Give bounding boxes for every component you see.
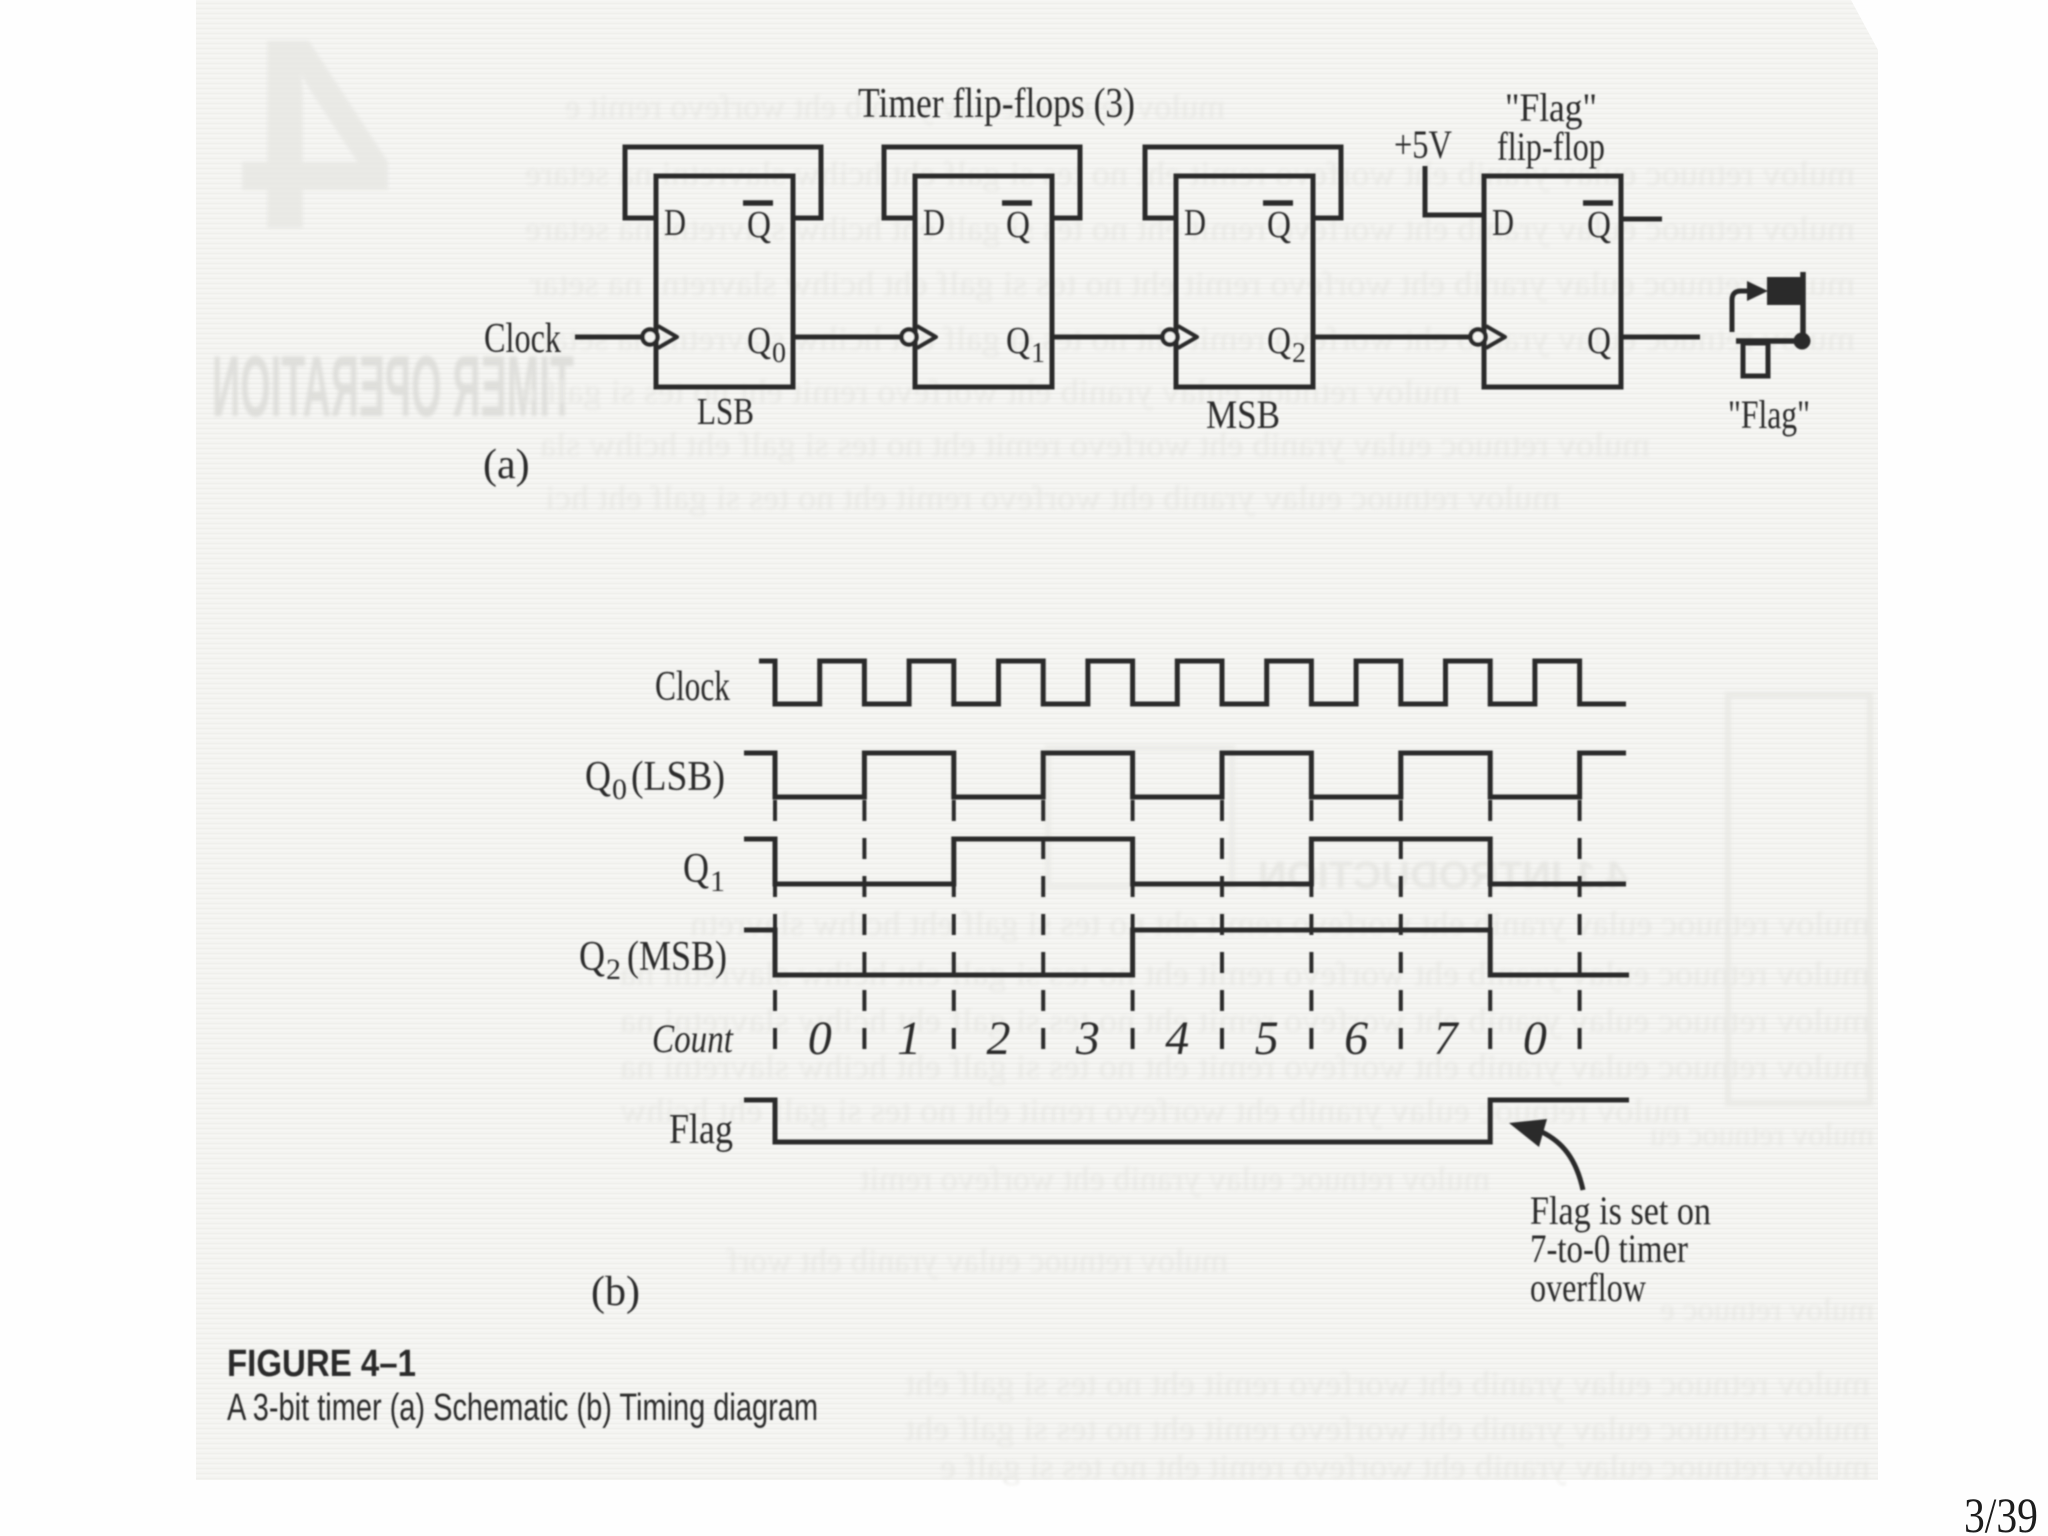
svg-text:"Flag": "Flag" [1728, 392, 1810, 437]
count values [808, 1012, 1547, 1065]
svg-text:1: 1 [1031, 338, 1045, 369]
flag symbol: curved set-arrow [1732, 291, 1752, 332]
svg-text:2: 2 [987, 1012, 1011, 1065]
svg-text:mulov retnuoc eulav yranib eht: mulov retnuoc eulav yranib eht worf [726, 1243, 1228, 1280]
svg-text:Q: Q [683, 846, 709, 892]
svg-text:MSB: MSB [1206, 392, 1280, 437]
Q1 row label [683, 846, 725, 898]
flag symbol: horizontal wire [1736, 338, 1802, 344]
svg-text:2: 2 [606, 953, 621, 986]
svg-text:mulov retnuoc eulav yranib eht: mulov retnuoc eulav yranib eht worfevo r… [904, 1411, 1870, 1448]
svg-text:Q: Q [585, 754, 611, 800]
svg-text:Q: Q [1006, 204, 1030, 246]
svg-text:4: 4 [239, 0, 392, 286]
svg-text:1: 1 [897, 1012, 921, 1065]
figure caption [227, 1343, 818, 1429]
svg-text:flip-flop: flip-flop [1497, 124, 1605, 169]
Q2 waveform [744, 930, 1629, 975]
svg-text:mulov retnuoc eulav yranib eht: mulov retnuoc eulav yranib eht worfevo r… [690, 906, 1870, 943]
flag symbol: filled flag [1768, 278, 1801, 304]
Q0 waveform [744, 753, 1626, 797]
D flip-flop flag flip-flop [1471, 176, 1622, 387]
D flip-flop FF2 (MSB) [1145, 147, 1341, 387]
svg-text:mulov retnuoc eulav yranib eht: mulov retnuoc eulav yranib eht worfevo r… [529, 266, 1855, 303]
D flip-flop FF0 (LSB) [625, 147, 821, 387]
svg-text:7: 7 [1434, 1012, 1460, 1065]
dashed count-boundary lines [775, 800, 1580, 1058]
svg-text:6: 6 [1344, 1012, 1368, 1065]
svg-text:2: 2 [1292, 338, 1306, 369]
svg-text:mulov retnuoc eu: mulov retnuoc eu [1650, 1116, 1874, 1152]
Q1 waveform [744, 839, 1626, 884]
svg-text:4: 4 [1165, 1012, 1189, 1065]
svg-text:Q: Q [1006, 320, 1030, 362]
svg-text:mulov retnuoc e: mulov retnuoc e [1660, 1291, 1874, 1327]
svg-text:mulov retnuoc eulav yranib eht: mulov retnuoc eulav yranib eht worfevo r… [859, 1161, 1490, 1198]
wire: Q0 to FF1 clock [793, 335, 901, 340]
Clock waveform [759, 661, 1626, 704]
svg-text:Q: Q [747, 320, 771, 362]
svg-text:1: 1 [710, 865, 725, 898]
svg-text:Timer flip-flops (3): Timer flip-flops (3) [858, 81, 1135, 127]
svg-text:mulov retnuoc eulav yranib eht: mulov retnuoc eulav yranib eht worfevo r… [520, 374, 1460, 411]
svg-text:D: D [664, 202, 686, 244]
svg-text:Count: Count [652, 1016, 734, 1061]
svg-text:LSB: LSB [697, 391, 754, 433]
svg-text:(b): (b) [591, 1269, 640, 1315]
annotation arrow to flag rising edge [1542, 1132, 1583, 1190]
svg-text:D: D [923, 202, 945, 244]
svg-text:0: 0 [1523, 1012, 1547, 1065]
annotation text [1530, 1188, 1711, 1310]
svg-text:5: 5 [1255, 1012, 1279, 1065]
D flip-flop FF1 [884, 147, 1080, 387]
svg-text:mulov retnuoc eulav yranib eht: mulov retnuoc eulav yranib eht worfevo r… [904, 1366, 1870, 1403]
flag symbol: pole [1800, 272, 1806, 341]
svg-text:(LSB): (LSB) [631, 754, 725, 800]
scanned paper area [196, 0, 1878, 1480]
svg-text:3: 3 [1075, 1012, 1100, 1065]
wire: Q of flag flip-flop to flag symbol [1621, 335, 1700, 340]
Q2 (MSB) row label [579, 934, 727, 986]
svg-text:0: 0 [612, 773, 627, 806]
svg-text:Q: Q [1267, 320, 1291, 362]
flag symbol: junction dot [1794, 333, 1811, 350]
svg-text:+5V: +5V [1394, 122, 1452, 167]
wire: Qbar stub of flag flip-flop [1621, 217, 1662, 222]
svg-text:Q: Q [1267, 204, 1291, 246]
wire: Q2 to flag-FF clock [1313, 335, 1470, 340]
svg-text:overflow: overflow [1530, 1265, 1646, 1310]
svg-text:Q: Q [579, 934, 605, 980]
svg-text:0: 0 [772, 338, 786, 369]
svg-text:D: D [1492, 202, 1514, 244]
svg-text:Q: Q [747, 204, 771, 246]
wire: +5V to D of flag flip-flop [1425, 166, 1484, 215]
svg-text:FIGURE 4–1: FIGURE 4–1 [227, 1343, 416, 1385]
svg-text:(MSB): (MSB) [627, 934, 727, 980]
svg-text:Q: Q [1587, 204, 1611, 246]
wire: clock lead into FF0 [575, 335, 643, 340]
svg-text:3/39: 3/39 [1964, 1487, 2038, 1536]
svg-text:Clock: Clock [484, 316, 561, 362]
Flag waveform [744, 1100, 1629, 1142]
svg-text:mulov retnuoc eulav yranib eht: mulov retnuoc eulav yranib eht worfevo r… [940, 1449, 1870, 1486]
flag symbol [1732, 272, 1811, 376]
svg-text:Q: Q [1587, 320, 1611, 362]
svg-text:A 3-bit timer (a) Schematic (b: A 3-bit timer (a) Schematic (b) Timing d… [227, 1387, 818, 1429]
flag symbol: open box [1743, 343, 1768, 376]
svg-text:D: D [1184, 202, 1206, 244]
svg-text:mulov retnuoc eulav yranib eht: mulov retnuoc eulav yranib eht worfevo r… [545, 480, 1560, 517]
svg-text:(a): (a) [483, 442, 530, 488]
wire: Q1 to FF2 clock [1052, 335, 1162, 340]
svg-text:Clock: Clock [655, 664, 730, 710]
ghost figure box (bleed-through) [1728, 695, 1870, 1103]
svg-text:0: 0 [808, 1012, 832, 1065]
svg-text:Flag: Flag [669, 1107, 733, 1153]
Q0 (LSB) row label [585, 754, 725, 806]
